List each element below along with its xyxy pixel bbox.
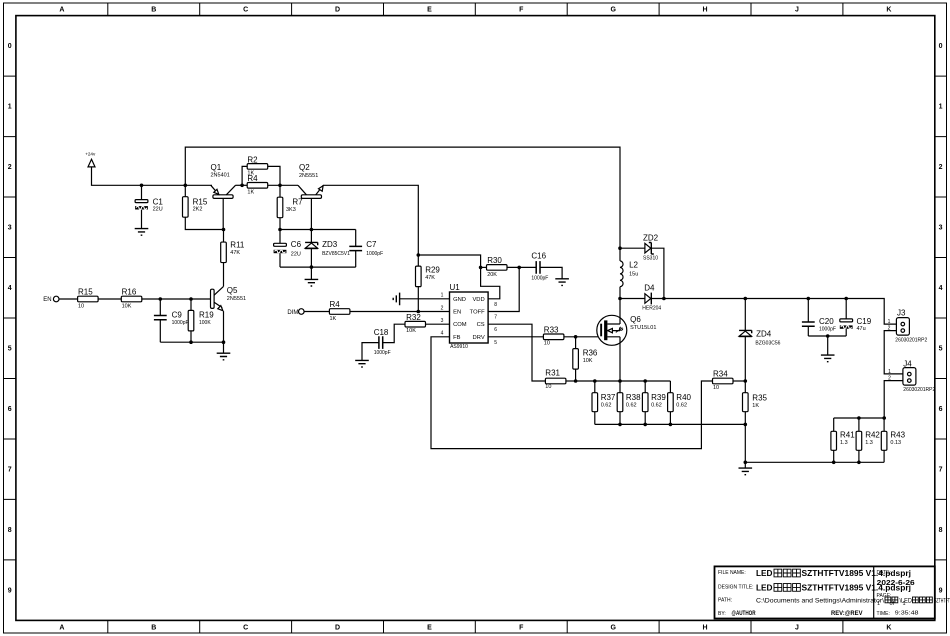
- wire C7 bottom: [355, 251, 357, 268]
- svg-text:G: G: [610, 7, 616, 14]
- wire DIM to R4: [304, 311, 329, 313]
- node R39 top: [643, 379, 647, 383]
- svg-text:C1: C1: [153, 197, 164, 206]
- resistor R41: [831, 430, 855, 450]
- wire branch to R30: [418, 255, 480, 267]
- node ZD4/R34/R35: [744, 379, 748, 383]
- ground C18: [355, 360, 369, 367]
- wire output rail: [651, 299, 896, 325]
- svg-text:COM: COM: [453, 322, 467, 328]
- resistor R11: [221, 240, 245, 262]
- svg-text:1000pF: 1000pF: [819, 327, 836, 333]
- wire C6 bottom: [279, 253, 281, 267]
- resistor R15 (2K2): [183, 197, 208, 218]
- wire FB loop: [431, 337, 713, 449]
- wire R30 to C16: [507, 266, 536, 268]
- svg-text:R32: R32: [406, 313, 421, 322]
- svg-text:22U: 22U: [153, 207, 163, 213]
- svg-text:R19: R19: [199, 311, 214, 320]
- node R15/main rail: [184, 184, 188, 188]
- op-amp U1 AS9910: [450, 283, 489, 350]
- capacitor C16: [531, 252, 548, 282]
- ground Q5 emitter: [217, 353, 231, 360]
- wire C19 bottom: [845, 329, 847, 336]
- resistor R34: [713, 370, 734, 392]
- svg-text:Q1: Q1: [211, 163, 222, 172]
- wire ZD4 bottom: [744, 337, 746, 381]
- resistor R33: [543, 326, 564, 347]
- wire L2 top: [619, 248, 621, 261]
- node R39 bottom: [643, 423, 647, 427]
- svg-text:47u: 47u: [857, 326, 866, 332]
- wire R15 to R16: [98, 298, 121, 300]
- resistor R40: [668, 393, 692, 412]
- ground U1 pin1 (bar style): [393, 293, 399, 306]
- svg-text:@AUTHOR: @AUTHOR: [732, 611, 757, 617]
- zener diode ZD4 BZG03C56: [739, 329, 781, 346]
- resistor R36: [573, 349, 598, 370]
- node R40 bottom: [669, 423, 673, 427]
- svg-text:4: 4: [441, 331, 444, 337]
- resistor R37: [592, 393, 616, 412]
- J3 pin numbers: [888, 319, 891, 332]
- svg-text:Q5: Q5: [227, 286, 238, 295]
- svg-text:R41: R41: [840, 430, 855, 439]
- port DIM: [287, 309, 304, 316]
- svg-text:0: 0: [939, 43, 943, 50]
- svg-text:1000pF: 1000pF: [366, 251, 383, 257]
- node ZD2/output rail: [662, 297, 666, 301]
- resistor R42: [856, 430, 880, 450]
- wire R37 bottom: [594, 412, 596, 425]
- node Q2/R29/R30 branch: [417, 253, 421, 257]
- wire ZD3 bottom: [310, 249, 312, 267]
- svg-text:10: 10: [544, 340, 550, 346]
- svg-text:C: C: [243, 625, 248, 632]
- wire R41 top: [833, 418, 835, 431]
- svg-text:8: 8: [494, 302, 497, 308]
- wire R42 top: [858, 418, 860, 431]
- svg-text:GND: GND: [453, 297, 466, 303]
- svg-text:R31: R31: [545, 369, 560, 378]
- wire C7 top: [355, 230, 357, 247]
- svg-text:SZTHTFTV1895 V1.4.pdsprj: SZTHTFTV1895 V1.4.pdsprj: [802, 583, 912, 593]
- wire J4 pin2 down: [884, 381, 903, 418]
- svg-text:C19: C19: [857, 317, 872, 326]
- svg-text:R33: R33: [544, 326, 559, 335]
- wire top feedback line: [185, 147, 620, 248]
- wire R16 to Q5 base: [142, 298, 211, 300]
- node L2/D4/Q6 drain: [618, 297, 622, 301]
- wire Q6 source: [619, 337, 621, 381]
- svg-text:EN: EN: [43, 297, 51, 303]
- node cap ground branch: [826, 334, 830, 338]
- wire R4 to EN pin: [350, 311, 450, 313]
- wire R33 to gate: [564, 336, 601, 338]
- capacitor C7: [349, 240, 383, 257]
- svg-text:10K: 10K: [583, 358, 593, 364]
- svg-text:10K: 10K: [406, 328, 416, 334]
- svg-text:R29: R29: [425, 265, 440, 274]
- svg-text:K: K: [886, 7, 891, 14]
- svg-text:R36: R36: [583, 349, 598, 358]
- svg-text:SZTHTFT: SZTHTFT: [934, 597, 950, 604]
- svg-text:D: D: [335, 625, 340, 632]
- svg-text:VDD: VDD: [472, 297, 484, 303]
- wire R39 top: [644, 381, 646, 393]
- svg-text:H: H: [703, 625, 708, 632]
- node ground rail left: [744, 461, 748, 465]
- resistor R4 (DIM 1K): [329, 300, 350, 322]
- svg-text:15u: 15u: [629, 272, 638, 278]
- svg-text:B: B: [151, 7, 156, 14]
- svg-text:1000pF: 1000pF: [531, 275, 548, 281]
- svg-text:1: 1: [8, 104, 12, 111]
- svg-text:47K: 47K: [425, 275, 435, 281]
- svg-text:BY:: BY:: [718, 611, 726, 617]
- svg-text:2K2: 2K2: [193, 207, 203, 213]
- svg-text:TOFF: TOFF: [470, 310, 485, 316]
- ground C16: [555, 279, 569, 286]
- svg-text:R42: R42: [865, 430, 880, 439]
- node C9 top: [159, 297, 163, 301]
- svg-text:1000pF: 1000pF: [374, 350, 391, 356]
- svg-text:H: H: [703, 7, 708, 14]
- schottky diode ZD2 SS310: [643, 234, 659, 262]
- wire R11 top: [223, 230, 225, 243]
- resistor R29: [416, 265, 441, 286]
- transistor Q5 2N5551: [211, 286, 247, 311]
- svg-text:Q2: Q2: [299, 163, 310, 172]
- diode D4 HER204: [642, 283, 661, 311]
- svg-text:3: 3: [939, 225, 943, 232]
- wire R19 top: [190, 299, 192, 310]
- node rail/R35: [744, 423, 748, 427]
- svg-text:CS: CS: [477, 322, 485, 328]
- wire R32 to C18: [383, 324, 405, 342]
- wire C19 top: [845, 299, 847, 319]
- capacitor C6: [274, 240, 302, 257]
- node R38 top: [618, 379, 622, 383]
- wire Q2 base down: [310, 198, 312, 229]
- svg-text:BZV85C5V1: BZV85C5V1: [322, 251, 350, 257]
- wire R31 to node: [566, 380, 576, 382]
- node R41 bottom: [832, 461, 836, 465]
- wire R15 bottom to Q1 collector: [185, 217, 223, 229]
- resistor R15 (10): [78, 288, 99, 310]
- svg-text:10: 10: [545, 384, 551, 390]
- resistor R4 (1K upper): [247, 174, 268, 195]
- connector J3 26030201RP2: [895, 309, 927, 344]
- node ZD2 branch: [618, 246, 622, 250]
- svg-text:R39: R39: [651, 393, 666, 402]
- node R33/R36/gate: [574, 335, 578, 339]
- svg-text:C18: C18: [374, 328, 389, 337]
- wire D4 anode: [620, 298, 645, 300]
- ground right rail: [739, 468, 753, 475]
- wire R7: [279, 185, 281, 197]
- svg-text:1K: 1K: [247, 189, 254, 195]
- svg-text:TIME:: TIME:: [877, 611, 890, 617]
- wire R2 right leg: [268, 166, 280, 185]
- wire Q1 to R2/R4 junction: [235, 184, 247, 186]
- node C19 top: [844, 297, 848, 301]
- wire C6 top: [279, 230, 281, 244]
- wire Q5 emitter down: [223, 311, 225, 342]
- wire R35 to ground rail: [744, 424, 746, 462]
- wire R42 bottom: [858, 450, 860, 462]
- power +24v: [85, 151, 96, 167]
- svg-text:ZD2: ZD2: [643, 234, 659, 243]
- svg-text:1: 1: [441, 293, 444, 299]
- zener diode ZD3 BZV85C5V1: [305, 240, 350, 257]
- svg-text:LED: LED: [756, 583, 773, 593]
- svg-text:R30: R30: [487, 256, 502, 265]
- wire R38 top: [619, 381, 621, 393]
- svg-text:8: 8: [8, 527, 12, 534]
- svg-text:A: A: [59, 7, 64, 14]
- wire C9 bottom: [159, 320, 161, 343]
- resistor R38: [617, 393, 641, 412]
- transistor Q6 STU15L01 MOSFET: [597, 315, 657, 345]
- node R2/R4/R7/Q2: [278, 184, 282, 188]
- wire R39 bottom: [644, 412, 646, 425]
- svg-text:5: 5: [494, 340, 497, 346]
- node R30 left/VDD branch: [479, 266, 483, 270]
- node R19 top: [189, 297, 193, 301]
- svg-text:R15: R15: [78, 288, 93, 297]
- wire ZD2 anode: [620, 247, 645, 249]
- svg-text:REV:@REV: REV:@REV: [831, 610, 863, 617]
- node R19 bottom: [189, 340, 193, 344]
- svg-text:8: 8: [939, 527, 943, 534]
- wire TOFF routing: [488, 267, 519, 311]
- svg-text:0.13: 0.13: [890, 440, 901, 446]
- svg-text:5: 5: [939, 346, 943, 353]
- title path text: [756, 597, 950, 604]
- resistor R31: [545, 369, 566, 390]
- wire R4 right: [268, 184, 298, 186]
- node ZD4 top: [744, 297, 748, 301]
- svg-text:4: 4: [8, 285, 12, 292]
- node R7/C6: [278, 228, 282, 232]
- svg-text:C20: C20: [819, 317, 834, 326]
- svg-text:7: 7: [939, 467, 943, 474]
- wire VDD routing: [481, 267, 500, 298]
- wire right ground rail: [745, 461, 884, 463]
- wire EN bottom rail: [160, 341, 223, 343]
- capacitor C20: [802, 317, 836, 333]
- resistor R39: [642, 393, 666, 412]
- svg-text:0.62: 0.62: [626, 402, 637, 408]
- ground ZD3 rail: [305, 279, 319, 286]
- svg-text:SS310: SS310: [643, 255, 658, 261]
- node R30 right/TOFF: [517, 266, 521, 270]
- node Q5 emitter/ground: [222, 340, 226, 344]
- svg-text:LED: LED: [756, 568, 773, 578]
- wire L2 bottom: [619, 287, 621, 299]
- wire CS routing: [488, 324, 545, 381]
- title block texts: [718, 570, 919, 617]
- svg-text:10: 10: [713, 385, 719, 391]
- svg-text:2: 2: [939, 164, 943, 171]
- svg-text:G: G: [610, 625, 616, 632]
- svg-text:R43: R43: [890, 430, 905, 439]
- svg-text:E: E: [427, 625, 432, 632]
- svg-text:Q6: Q6: [630, 315, 641, 324]
- svg-text:L2: L2: [629, 260, 638, 269]
- svg-text:1: 1: [939, 104, 943, 111]
- wire ZD3 top: [310, 230, 312, 243]
- wire C16 to ground: [540, 267, 562, 278]
- wire R35 top: [744, 381, 746, 393]
- node ZD3 top: [310, 228, 314, 232]
- svg-text:PATH:: PATH:: [718, 598, 732, 604]
- wire R15 top: [184, 185, 186, 196]
- node R37 top: [593, 379, 597, 383]
- node J4/R43 top: [882, 416, 886, 420]
- wire C1: [141, 185, 143, 199]
- svg-text:100K: 100K: [199, 320, 211, 326]
- J4 pin numbers: [888, 369, 891, 382]
- resistor R16: [121, 288, 142, 310]
- wire C18 to ground: [362, 343, 379, 361]
- resistor R43: [881, 430, 905, 450]
- capacitor C9: [154, 311, 189, 326]
- node R42 top: [857, 416, 861, 420]
- svg-text:ZD4: ZD4: [756, 329, 772, 338]
- svg-text:E: E: [427, 7, 432, 14]
- svg-text:STU15L01: STU15L01: [630, 325, 656, 331]
- svg-text:DIM: DIM: [287, 310, 298, 316]
- capacitor C19: [840, 317, 872, 332]
- svg-text:B: B: [151, 625, 156, 632]
- svg-text:R37: R37: [601, 393, 616, 402]
- svg-text:R40: R40: [676, 393, 691, 402]
- svg-text:2: 2: [8, 164, 12, 171]
- svg-text:26030201RP2: 26030201RP2: [903, 387, 935, 393]
- svg-text:0.62: 0.62: [601, 402, 612, 408]
- wire R43 bottom: [883, 450, 885, 462]
- node R29 bottom/EN pin: [417, 310, 421, 314]
- svg-text:FILE NAME:: FILE NAME:: [718, 570, 746, 576]
- svg-text:2N5551: 2N5551: [227, 296, 246, 302]
- wire R2 left leg: [242, 166, 247, 185]
- wire R11 bottom: [223, 263, 225, 287]
- svg-text:F: F: [519, 625, 524, 632]
- resistor R19: [188, 310, 214, 331]
- svg-text:J: J: [795, 7, 799, 14]
- wire R29 bottom: [417, 287, 419, 312]
- title design title text: [756, 583, 911, 593]
- svg-text:4: 4: [939, 285, 943, 292]
- wire R34 right: [733, 380, 745, 382]
- svg-text:R2: R2: [247, 155, 258, 164]
- svg-text:DRV: DRV: [473, 335, 485, 341]
- wire C20 top: [807, 299, 809, 323]
- svg-text:1.3: 1.3: [865, 440, 873, 446]
- node Q1 base/R11/R15: [222, 228, 226, 232]
- svg-text:J4: J4: [903, 360, 912, 369]
- svg-text:R11: R11: [230, 240, 245, 249]
- svg-text:5: 5: [8, 346, 12, 353]
- wire R29 top: [417, 255, 419, 266]
- title file name text: [756, 568, 911, 578]
- svg-text:2: 2: [441, 305, 444, 311]
- svg-text:R7: R7: [292, 197, 303, 206]
- svg-text:9:35:48: 9:35:48: [895, 611, 919, 617]
- ground C1: [135, 229, 149, 236]
- svg-text:0.62: 0.62: [651, 402, 662, 408]
- ground C20/C19: [821, 355, 835, 362]
- transistor Q1 2N5401: [211, 163, 236, 198]
- wire R36 bottom: [575, 369, 577, 381]
- wire cap ground stem: [827, 336, 829, 355]
- svg-text:3: 3: [441, 318, 444, 324]
- svg-text:EN: EN: [453, 310, 461, 316]
- svg-text:DESIGN TITLE:: DESIGN TITLE:: [718, 584, 753, 590]
- svg-text:R35: R35: [752, 393, 767, 402]
- svg-text:BZG03C56: BZG03C56: [755, 340, 780, 346]
- svg-text:0.62: 0.62: [676, 402, 687, 408]
- svg-text:A: A: [59, 625, 64, 632]
- svg-text:K: K: [886, 625, 891, 632]
- svg-text:D: D: [335, 7, 340, 14]
- resistor R2: [247, 155, 268, 176]
- svg-text:C9: C9: [172, 311, 183, 320]
- wire to ground Q5: [223, 342, 225, 353]
- svg-text:FB: FB: [453, 335, 461, 341]
- svg-text:R38: R38: [626, 393, 641, 402]
- svg-text:SZTHTFTV1895 V1.4.pdsprj: SZTHTFTV1895 V1.4.pdsprj: [802, 568, 912, 578]
- svg-text:R15: R15: [193, 197, 208, 206]
- svg-text:R16: R16: [122, 288, 137, 297]
- port EN: [43, 296, 59, 303]
- U1 pin numbers: [441, 293, 498, 346]
- resistor R32: [405, 313, 426, 334]
- svg-text:AS9910: AS9910: [450, 344, 468, 350]
- wire sense bottom rail: [595, 423, 746, 425]
- svg-text:6: 6: [939, 406, 943, 413]
- wire ZD4 top: [744, 299, 746, 331]
- svg-text:1K: 1K: [330, 316, 337, 322]
- svg-text:\LED: \LED: [900, 597, 913, 604]
- inductor L2: [620, 260, 639, 286]
- svg-text:7: 7: [494, 315, 497, 321]
- resistor R30: [487, 256, 508, 278]
- wire R36 top: [575, 337, 577, 349]
- svg-text:10: 10: [78, 303, 84, 309]
- svg-text:J: J: [795, 625, 799, 632]
- svg-text:+24v: +24v: [85, 151, 96, 156]
- svg-text:22U: 22U: [291, 252, 301, 258]
- svg-text:1: 1: [888, 319, 891, 325]
- wire R41-R43 top rail: [834, 417, 884, 419]
- svg-text:10K: 10K: [122, 303, 132, 309]
- wire to ground ZD3: [310, 267, 312, 279]
- title block: [715, 566, 935, 618]
- svg-text:6: 6: [8, 406, 12, 413]
- wire Q6 drain: [619, 299, 621, 325]
- capacitor C18: [374, 328, 391, 356]
- wire R43 top: [883, 418, 885, 431]
- wire ground stem right: [744, 462, 746, 468]
- node C1/main rail: [140, 184, 144, 188]
- wire DRV to R33: [488, 336, 543, 338]
- wire GND pin1: [400, 298, 450, 300]
- svg-text:0: 0: [8, 43, 12, 50]
- wire ZD2 cathode down: [651, 248, 664, 298]
